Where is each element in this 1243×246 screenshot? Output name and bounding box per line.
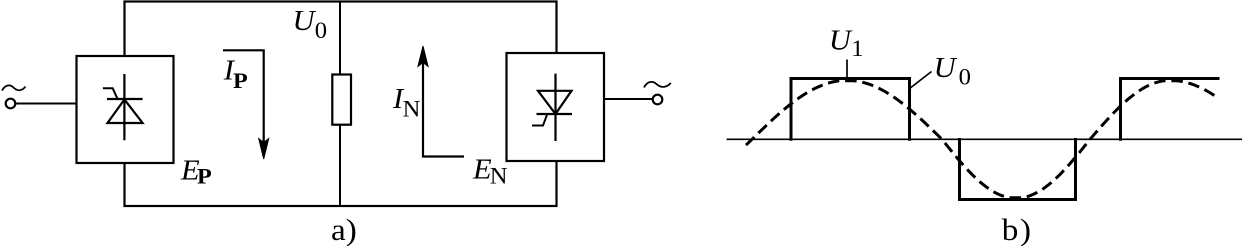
leader line U1 xyxy=(846,60,848,81)
terminal right circle xyxy=(653,95,663,105)
label U0 circuit xyxy=(293,6,328,44)
waveform U0 square pulse 1 xyxy=(791,79,910,141)
label U0 waveform xyxy=(934,53,971,90)
thyristor V2 triangle xyxy=(538,91,572,114)
wire middle branch xyxy=(339,2,341,206)
thyristor V2 gate lead xyxy=(532,115,547,126)
AC source tilde left xyxy=(2,85,26,90)
waveform U0 square pulse 2 xyxy=(960,138,1076,200)
label U1 xyxy=(829,25,864,61)
thyristor V1 symbol vertical lead xyxy=(123,74,125,140)
thyristor V1 gate lead xyxy=(103,88,118,99)
svg-text:): ) xyxy=(1020,212,1031,246)
svg-text:1: 1 xyxy=(851,37,863,62)
current arrow IP xyxy=(223,50,269,159)
AC source tilde right xyxy=(644,82,671,88)
svg-text:a): a) xyxy=(331,212,357,246)
resistor R load xyxy=(332,75,351,125)
label EP xyxy=(180,155,212,189)
svg-text:U: U xyxy=(829,25,853,56)
waveform U1 sine dashed xyxy=(746,81,1217,198)
label IN xyxy=(392,84,420,122)
waveform U0 square pulse 3 xyxy=(1121,79,1220,141)
wire right terminal lead xyxy=(604,98,653,100)
svg-text:N: N xyxy=(403,97,421,122)
svg-text:N: N xyxy=(490,164,508,189)
svg-text:E: E xyxy=(472,154,492,185)
svg-text:U: U xyxy=(293,6,317,37)
current arrow IN xyxy=(418,46,464,157)
thyristor V1 triangle xyxy=(108,100,143,124)
thyristor V1 cathode bar xyxy=(107,98,143,100)
thyristor V2 symbol vertical lead xyxy=(554,74,556,141)
svg-text:P: P xyxy=(197,164,212,189)
thyristor V2 cathode bar xyxy=(537,113,573,115)
leader line U0 xyxy=(910,72,931,89)
wire left terminal lead xyxy=(15,103,76,105)
terminal left circle xyxy=(6,99,16,109)
svg-text:P: P xyxy=(233,69,248,94)
thyristor block V1 (left box) xyxy=(77,56,174,163)
wire outer loop rails xyxy=(125,2,557,207)
label EN xyxy=(472,154,507,189)
waveform axis xyxy=(727,138,1242,140)
svg-text:0: 0 xyxy=(315,19,327,44)
thyristor block V2 (right box) xyxy=(507,53,605,161)
svg-text:U: U xyxy=(934,53,958,84)
label IP xyxy=(223,55,248,94)
svg-text:b: b xyxy=(1002,212,1019,246)
svg-text:0: 0 xyxy=(959,65,971,90)
